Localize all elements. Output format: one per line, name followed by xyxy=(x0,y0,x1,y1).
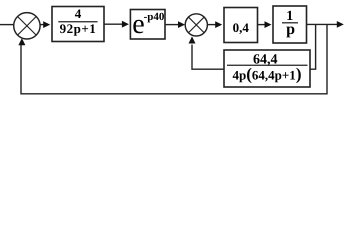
arrowhead output xyxy=(337,21,344,28)
svg-text:4p(64,4p+1): 4p(64,4p+1) xyxy=(233,64,302,83)
arrowhead into gain block xyxy=(215,21,222,28)
summing junction SJ2 xyxy=(185,14,207,36)
arrowhead into SJ2 xyxy=(178,21,185,28)
wire input line into SJ1 xyxy=(0,24,14,26)
delay block e^-p40 xyxy=(130,9,165,40)
arrowhead up into SJ2 xyxy=(189,36,196,43)
arrowhead into integrator xyxy=(265,21,272,28)
arrowhead into delay block xyxy=(122,21,129,28)
wire delay block to SJ2 xyxy=(165,24,179,26)
wire feedback block output left and up to SJ2 xyxy=(192,45,224,70)
svg-text:0,4: 0,4 xyxy=(233,20,250,35)
summing junction SJ1 xyxy=(14,13,40,39)
block G1 transfer function 4/(92p+1) xyxy=(52,6,104,42)
gain block 0,4 xyxy=(224,8,258,43)
wire G1 to delay block xyxy=(104,23,123,25)
wire gain block to integrator xyxy=(258,24,266,26)
wire tap B outer feedback: down, bottom rail, up to SJ1 xyxy=(21,24,327,93)
svg-text:p: p xyxy=(286,21,295,38)
wire SJ1 to block G1 xyxy=(40,24,44,26)
svg-text:92p+1: 92p+1 xyxy=(60,21,97,36)
wire output line xyxy=(307,23,338,25)
feedback block 64,4/(4p(64,4p+1)) xyxy=(224,50,310,87)
wire tap A from output down into feedback block right side xyxy=(310,24,316,69)
svg-text:4: 4 xyxy=(75,6,82,21)
arrowhead into block G1 xyxy=(43,21,50,28)
integrator block 1/p xyxy=(273,6,307,43)
arrowhead up into SJ1 xyxy=(18,38,25,45)
wire SJ2 to gain block xyxy=(207,24,216,26)
